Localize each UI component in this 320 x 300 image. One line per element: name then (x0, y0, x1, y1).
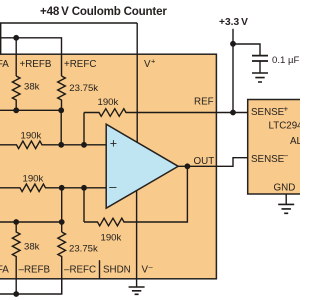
pin tick -REFC/SHDN (99, 260, 101, 278)
ground (U2 GND) (278, 204, 294, 213)
resistor R8 23.75k (lower) (58, 232, 66, 294)
node junction at (84,144.8) (81, 142, 87, 148)
svg-text:SENSE: SENSE (251, 107, 285, 118)
wire bottom rail joining lower resistors (0, 279, 62, 294)
node junction at (16.2,222) (13, 219, 19, 225)
svg-text:+: + (284, 105, 289, 114)
svg-text:SENSE: SENSE (251, 154, 285, 165)
svg-text:SHDN: SHDN (103, 265, 131, 276)
wire OUT from op-amp to SENSE- with jog (178, 158, 248, 167)
node junction at (61.7,187.8) (59, 185, 65, 191)
svg-text:ALERT: ALERT (290, 136, 300, 147)
node junction at (233,112.5) (230, 110, 236, 116)
amplifier block U1 body (0, 54, 216, 279)
node junction at (84,187.8) (81, 185, 87, 191)
svg-text:–REFB: –REFB (19, 265, 51, 276)
node junction at (61.7,222) (59, 219, 65, 225)
wire +3.3V drop to REF/SENSE+ (232, 29, 234, 113)
svg-text:–: – (284, 151, 289, 160)
wire left edge stub from +48V rail into block (0, 23, 2, 54)
ground (capacitor) (252, 73, 268, 82)
node junction at (16.2,37.8) (13, 35, 19, 41)
wire drop minus row to lower rail and R7 (61, 188, 63, 232)
node junction at (61.2,110.3) (58, 107, 64, 113)
node junction at (61.2,144.8) (58, 142, 64, 148)
wire V+ drop from +48V rail to op-amp top edge (136, 23, 138, 142)
resistor R2 23.75k (upper) (58, 76, 66, 110)
node junction at (187.4,166.3) (185, 163, 191, 169)
resistor R3 190k (plus input) with wire (0, 141, 106, 149)
wire feedback riser from minus row (83, 188, 85, 222)
svg-text:V: V (144, 59, 151, 70)
node junction at (233,43.8) (230, 41, 236, 47)
resistor R6 190k (feedback) with wire to OUT (84, 166, 187, 226)
svg-text:V: V (142, 265, 149, 276)
node junction at (16.2,294) (13, 291, 19, 297)
coulomb counter IC U2 body (LTC294x) (248, 100, 308, 195)
svg-text:190k: 190k (101, 232, 122, 243)
wire +48V top rail (0, 22, 137, 24)
svg-text:+: + (151, 57, 156, 66)
wire capacitor to ground (259, 61, 261, 73)
wire GND stub of U2 (285, 194, 287, 204)
resistor R7 38k (lower) (12, 222, 20, 294)
svg-text:190k: 190k (23, 174, 44, 185)
svg-text:+REFB: +REFB (20, 59, 52, 70)
svg-text:–REFC: –REFC (64, 265, 96, 276)
wire second rail to +REFB/+REFC (0, 38, 62, 76)
resistor R5 190k (minus input) with wire (0, 184, 106, 192)
resistor R4 190k (to REF) with wire to SENSE+ (84, 109, 248, 117)
svg-text:190k: 190k (21, 131, 42, 142)
wire capacitor branch (233, 44, 260, 56)
svg-text:38k: 38k (24, 82, 40, 93)
svg-text:190k: 190k (98, 97, 119, 108)
svg-text:+3.3 V: +3.3 V (219, 17, 248, 28)
svg-text:LTC2941: LTC2941 (269, 120, 301, 131)
svg-text:GND: GND (274, 183, 296, 194)
op-amp A1 (106, 124, 178, 208)
wire V- from op-amp bottom edge to ground (136, 191, 138, 287)
wire riser to REF resistor (83, 113, 85, 145)
ground (V-) (129, 287, 145, 294)
svg-text:+REFC: +REFC (64, 59, 96, 70)
svg-text:23.75k: 23.75k (69, 83, 98, 94)
svg-text:23.75k: 23.75k (69, 244, 98, 255)
svg-text:REF: REF (194, 97, 214, 108)
svg-text:–: – (109, 179, 117, 194)
svg-text:38k: 38k (24, 242, 40, 253)
svg-text:FA: FA (0, 59, 9, 70)
svg-text:+48 V Coulomb Counter: +48 V Coulomb Counter (40, 5, 167, 18)
capacitor C1 0.1uF plates (252, 56, 268, 61)
node junction at (16.2,110.3) (13, 107, 19, 113)
svg-text:0.1 µF: 0.1 µF (272, 55, 300, 66)
svg-text:OUT: OUT (194, 156, 215, 167)
wire +REFB drop (15, 38, 17, 76)
resistor R1 38k (upper) (12, 76, 20, 110)
wire row1 joining R1/R2 bottoms (0, 109, 61, 111)
wire drop row1 to plus-input row (60, 110, 62, 145)
svg-text:FA: FA (0, 265, 9, 276)
wire lower-left rail (0, 221, 62, 223)
svg-text:+: + (110, 137, 117, 151)
